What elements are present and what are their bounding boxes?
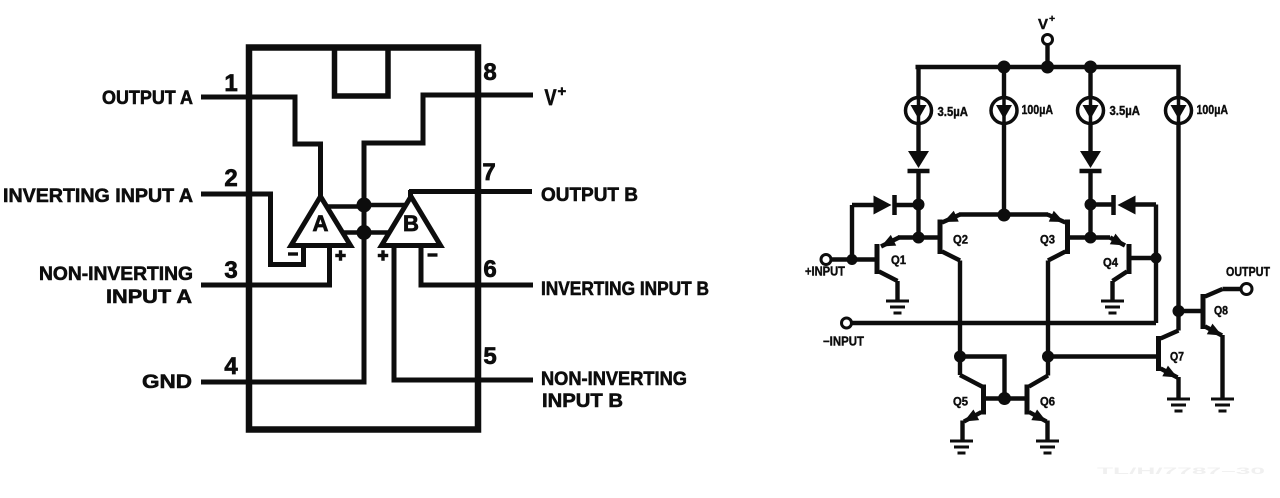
svg-text:3.5µA: 3.5µA: [938, 104, 969, 119]
svg-text:INVERTING INPUT B: INVERTING INPUT B: [541, 278, 709, 300]
svg-text:+INPUT: +INPUT: [805, 265, 845, 279]
svg-text:A: A: [313, 211, 329, 236]
svg-text:Q8: Q8: [1214, 306, 1229, 318]
svg-text:Q7: Q7: [1170, 352, 1184, 364]
svg-text:TL/H/7787–30: TL/H/7787–30: [1097, 466, 1265, 477]
svg-text:GND: GND: [142, 371, 192, 393]
svg-text:INVERTING INPUT A: INVERTING INPUT A: [3, 185, 193, 207]
svg-text:−INPUT: −INPUT: [823, 335, 864, 349]
svg-text:2: 2: [224, 165, 237, 192]
svg-text:100µA: 100µA: [1197, 102, 1229, 117]
svg-text:3.5µA: 3.5µA: [1110, 103, 1141, 118]
svg-text:Q6: Q6: [1040, 397, 1055, 409]
svg-text:4: 4: [224, 353, 238, 380]
svg-text:+: +: [558, 83, 567, 100]
svg-text:Q3: Q3: [1040, 235, 1055, 247]
svg-text:Q2: Q2: [953, 235, 968, 247]
svg-text:3: 3: [224, 257, 237, 284]
svg-text:INPUT B: INPUT B: [542, 390, 623, 412]
svg-text:100µA: 100µA: [1022, 102, 1054, 117]
svg-text:INPUT A: INPUT A: [106, 286, 192, 308]
svg-text:5: 5: [483, 343, 496, 370]
svg-text:Q4: Q4: [1103, 258, 1119, 270]
svg-text:8: 8: [483, 59, 496, 86]
svg-text:Q1: Q1: [891, 255, 907, 267]
svg-text:V: V: [1038, 16, 1048, 33]
svg-text:1: 1: [224, 70, 237, 97]
svg-text:OUTPUT A: OUTPUT A: [102, 87, 193, 109]
svg-text:+: +: [1049, 13, 1055, 25]
svg-text:7: 7: [482, 159, 495, 186]
svg-text:NON-INVERTING: NON-INVERTING: [541, 368, 687, 390]
svg-text:Q5: Q5: [953, 397, 969, 409]
svg-text:6: 6: [483, 256, 496, 283]
svg-text:B: B: [403, 211, 419, 236]
svg-text:OUTPUT: OUTPUT: [1226, 265, 1270, 279]
svg-text:V: V: [545, 85, 557, 110]
svg-text:OUTPUT B: OUTPUT B: [541, 184, 638, 206]
svg-text:NON-INVERTING: NON-INVERTING: [39, 263, 193, 285]
